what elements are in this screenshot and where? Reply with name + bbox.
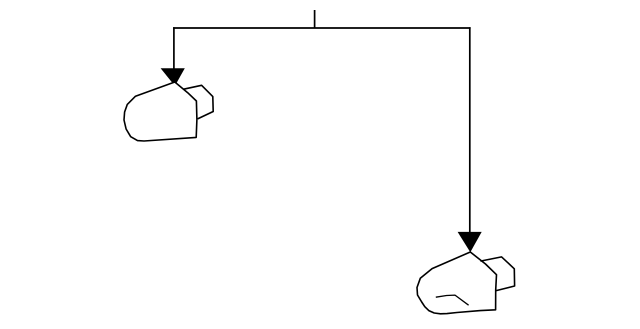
part left sensor body [124,82,197,141]
wire top stub [314,10,316,28]
part right sensor detail line [436,295,469,305]
wire right drop [469,27,471,233]
part left sensor connector tab [184,85,214,119]
part right sensor connector tab [480,257,514,291]
arrowhead right [458,232,482,252]
wire left drop [173,27,175,69]
part right sensor body [417,252,497,314]
wire horizontal branch [173,27,471,29]
arrowhead left [161,68,185,83]
